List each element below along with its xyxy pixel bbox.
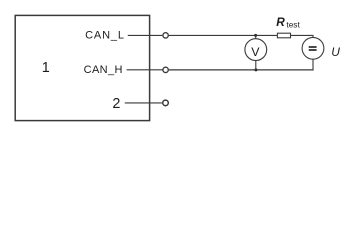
svg-text:CAN_H: CAN_H	[84, 64, 123, 76]
junction dot node CAN_H / voltmeter	[254, 68, 257, 71]
terminal circle CAN_H	[163, 67, 168, 72]
svg-text:R: R	[276, 15, 285, 29]
wire pin 2 stub	[125, 102, 162, 104]
wire CAN_L net top segment	[169, 34, 313, 36]
terminal circle pin 2	[163, 100, 169, 106]
wire CAN_L pin stub	[128, 34, 163, 36]
svg-text:U: U	[331, 45, 340, 59]
resistor R_test	[277, 33, 290, 38]
wire top right corner to source	[312, 35, 314, 37]
device box 1 (DUT)	[15, 15, 149, 120]
wire CAN_H pin stub	[127, 69, 163, 71]
equals symbol inside source	[309, 46, 317, 48]
wire CAN_H net bottom segment	[169, 69, 314, 71]
svg-text:1: 1	[42, 60, 50, 76]
junction dot node CAN_L / voltmeter	[254, 34, 257, 37]
svg-text:V: V	[251, 45, 260, 59]
wire source bottom stub	[312, 59, 314, 70]
wire voltmeter top stub	[255, 35, 257, 38]
voltage source U (DC source)	[302, 37, 324, 59]
svg-text:2: 2	[112, 96, 120, 112]
voltmeter V	[245, 39, 267, 61]
svg-text:CAN_L: CAN_L	[85, 30, 125, 42]
terminal circle CAN_L	[163, 33, 168, 38]
wire voltmeter bottom stub	[255, 60, 257, 70]
svg-text:test: test	[286, 20, 300, 30]
